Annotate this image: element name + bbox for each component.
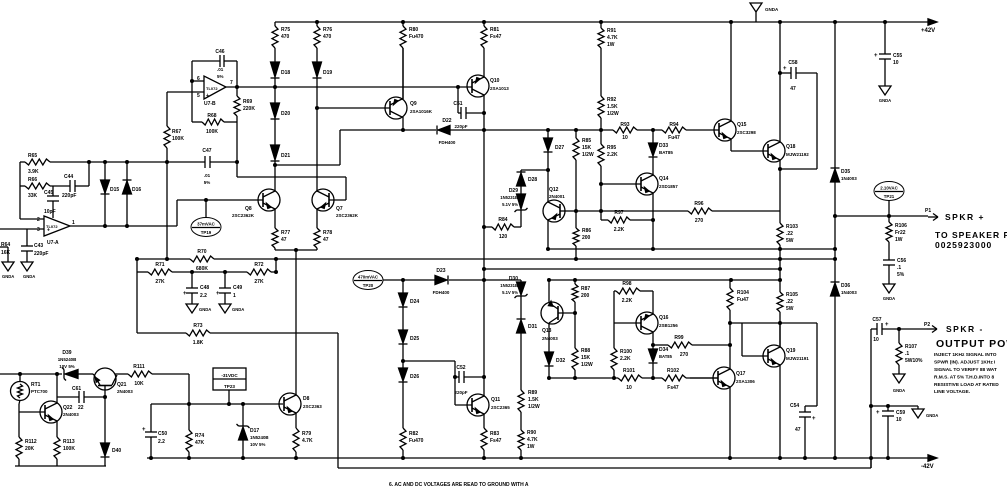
svg-text:5%: 5% — [204, 180, 211, 185]
svg-text:3.9K: 3.9K — [28, 169, 39, 175]
diode D31 — [517, 320, 526, 333]
svg-text:220pF: 220pF — [454, 124, 467, 129]
svg-text:TP20: TP20 — [363, 283, 374, 288]
svg-text:Q13: Q13 — [542, 328, 552, 334]
capacitor C47 — [204, 156, 206, 168]
svg-text:SPKR -: SPKR - — [946, 324, 984, 334]
svg-text:C46: C46 — [215, 49, 224, 55]
svg-text:R102: R102 — [667, 368, 679, 374]
svg-text:Q7: Q7 — [336, 206, 343, 212]
capacitor C46 — [219, 55, 221, 67]
svg-text:470: 470 — [323, 34, 332, 40]
svg-text:15K: 15K — [581, 355, 591, 361]
svg-text:INJECT 1KHz SIGNAL INTO: INJECT 1KHz SIGNAL INTO — [934, 352, 997, 358]
svg-text:5%: 5% — [897, 272, 905, 278]
svg-text:+: + — [206, 93, 209, 99]
resistor R88 — [574, 313, 576, 348]
svg-text:16K: 16K — [1, 250, 11, 256]
svg-text:TP19: TP19 — [201, 230, 212, 235]
wire emitters join — [275, 249, 317, 251]
svg-text:Fu470: Fu470 — [409, 438, 424, 444]
svg-text:R75: R75 — [281, 27, 290, 33]
capacitor C59 — [871, 405, 918, 407]
diode D20 — [271, 103, 280, 118]
svg-text:+: + — [885, 322, 889, 328]
resistor R80 — [402, 22, 404, 26]
svg-text:RESISTIVE LOAD AT RATED: RESISTIVE LOAD AT RATED — [934, 382, 999, 388]
transistor Q22 — [19, 411, 45, 413]
ground GNDA top — [750, 3, 762, 12]
svg-text:R87: R87 — [581, 286, 590, 292]
svg-text:D17: D17 — [250, 428, 259, 434]
svg-text:270: 270 — [680, 352, 689, 358]
svg-text:-42V: -42V — [921, 464, 934, 470]
transistor Q16 — [614, 322, 641, 324]
svg-text:R93: R93 — [620, 122, 629, 128]
svg-text:BAT85: BAT85 — [659, 150, 673, 155]
wire U7-A output — [70, 225, 177, 227]
svg-text:R106: R106 — [895, 223, 907, 229]
wire bus C — [484, 268, 780, 270]
svg-text:C49: C49 — [233, 285, 242, 291]
+42V arrow — [928, 19, 937, 25]
wire main bias line — [340, 129, 436, 131]
svg-text:GNDA: GNDA — [199, 307, 211, 312]
svg-text:Fr22: Fr22 — [895, 230, 906, 236]
svg-text:2N4003: 2N4003 — [63, 412, 79, 417]
svg-text:2.2K: 2.2K — [620, 356, 631, 362]
diode D26 — [399, 368, 408, 381]
capacitor C54 — [816, 323, 818, 406]
resistor R85 — [575, 130, 577, 138]
wire x484 driver rail — [483, 130, 485, 227]
svg-text:R82: R82 — [409, 431, 418, 437]
resistor R96 — [688, 208, 712, 214]
svg-text:Q15: Q15 — [737, 122, 747, 128]
svg-text:D26: D26 — [410, 374, 419, 380]
svg-text:2: 2 — [37, 217, 40, 223]
wire Q11 base net — [403, 360, 455, 362]
svg-text:D21: D21 — [281, 153, 290, 159]
svg-text:D15: D15 — [110, 187, 119, 193]
svg-text:6. AC AND DC VOLTAGES ARE READ: 6. AC AND DC VOLTAGES ARE READ TO GROUND… — [389, 482, 529, 488]
svg-text:PTC700: PTC700 — [31, 389, 48, 394]
svg-text:1N4003: 1N4003 — [841, 176, 857, 181]
svg-text:.01: .01 — [217, 67, 224, 72]
svg-text:2SD1857: 2SD1857 — [659, 184, 678, 189]
transistor Q12 — [543, 200, 565, 222]
diode D33 — [652, 130, 654, 143]
svg-text:C57: C57 — [872, 317, 881, 323]
svg-text:R64: R64 — [1, 242, 10, 248]
svg-text:R100: R100 — [620, 349, 632, 355]
diode D39 zener — [65, 370, 78, 379]
wire Q7 base path — [236, 122, 238, 177]
svg-text:D16: D16 — [132, 187, 141, 193]
svg-text:D24: D24 — [410, 299, 419, 305]
diode D15 — [104, 162, 106, 226]
svg-text:.1: .1 — [897, 265, 901, 271]
wire x871 riser — [870, 329, 872, 468]
svg-text:4.7K: 4.7K — [302, 438, 313, 444]
wire SPKR+ line — [835, 215, 928, 217]
svg-text:D36: D36 — [841, 283, 850, 289]
svg-text:200: 200 — [582, 235, 591, 241]
svg-text:2N4003: 2N4003 — [117, 389, 133, 394]
svg-text:-31VDC: -31VDC — [221, 373, 238, 378]
svg-text:R99: R99 — [674, 335, 683, 341]
svg-text:R85: R85 — [582, 138, 591, 144]
resistor R102 — [662, 375, 686, 381]
svg-text:+: + — [47, 228, 50, 234]
resistor R78 — [314, 228, 320, 248]
svg-text:10pF: 10pF — [44, 209, 56, 215]
svg-text:R72: R72 — [254, 262, 263, 268]
resistor R72 — [247, 269, 271, 275]
capacitor C45 — [52, 186, 54, 196]
svg-text:4.7K: 4.7K — [607, 35, 618, 41]
transistor Q14 — [601, 183, 641, 185]
ground GNDA C49 — [219, 304, 231, 313]
svg-text:+: + — [183, 291, 187, 297]
wire -42V bottom rail — [147, 457, 928, 459]
svg-text:R111: R111 — [133, 364, 145, 370]
wire node R65/C47 line — [20, 161, 25, 163]
svg-text:D28: D28 — [528, 177, 537, 183]
svg-text:Q17: Q17 — [736, 371, 746, 377]
svg-text:P1: P1 — [925, 208, 931, 214]
svg-text:C61: C61 — [72, 386, 81, 392]
svg-text:R80: R80 — [409, 27, 418, 33]
resistor R107 — [898, 329, 900, 343]
svg-text:1.5K: 1.5K — [528, 397, 539, 403]
svg-text:C56: C56 — [897, 258, 906, 264]
svg-text:1: 1 — [72, 220, 75, 226]
resistor R73 — [137, 332, 186, 334]
svg-text:D33: D33 — [659, 143, 668, 149]
svg-text:+: + — [874, 53, 878, 59]
svg-text:Q22: Q22 — [63, 405, 73, 411]
svg-text:2N4001: 2N4001 — [549, 194, 565, 199]
diode D21 — [271, 145, 280, 160]
resistor R75 — [274, 22, 276, 26]
svg-text:1: 1 — [233, 293, 236, 299]
svg-text:SIGNAL TO VERIFY 88 WAT: SIGNAL TO VERIFY 88 WAT — [934, 367, 997, 373]
svg-text:270: 270 — [695, 218, 704, 224]
diode D16 — [126, 162, 128, 226]
resistor R86 — [573, 228, 579, 246]
svg-text:R70: R70 — [197, 249, 206, 255]
svg-text:R112: R112 — [25, 439, 37, 445]
svg-text:220pF: 220pF — [34, 251, 48, 257]
svg-text:2SC2365: 2SC2365 — [491, 405, 510, 410]
wire -31V line — [0, 373, 62, 375]
resistor R76 — [316, 22, 318, 26]
svg-text:RT1: RT1 — [31, 382, 41, 388]
svg-text:5: 5 — [197, 93, 200, 99]
svg-text:D25: D25 — [410, 336, 419, 342]
svg-text:27K: 27K — [155, 279, 165, 285]
svg-text:2N4003: 2N4003 — [542, 336, 558, 341]
diode D29 — [520, 186, 522, 194]
svg-text:4.7K: 4.7K — [527, 437, 538, 443]
svg-text:0025923000: 0025923000 — [935, 240, 992, 250]
ground GNDA C56 — [883, 284, 895, 293]
wire base bias line — [576, 210, 688, 212]
svg-text:R107: R107 — [905, 344, 917, 350]
op-amp U7-B — [204, 76, 226, 99]
svg-text:C52: C52 — [456, 365, 465, 371]
capacitor C51 — [457, 87, 459, 113]
diode D24 — [402, 280, 404, 293]
svg-text:+: + — [812, 416, 816, 422]
svg-text:Q8: Q8 — [245, 206, 252, 212]
svg-text:MJW21191: MJW21191 — [786, 356, 809, 361]
ground GNDA C55 — [879, 86, 891, 95]
resistor R99 — [653, 344, 668, 346]
svg-text:47: 47 — [323, 237, 329, 243]
svg-text:R79: R79 — [302, 431, 311, 437]
svg-text:1W: 1W — [527, 444, 535, 450]
svg-text:U7-B: U7-B — [204, 101, 216, 107]
svg-text:.1: .1 — [905, 351, 909, 357]
svg-text:R104: R104 — [737, 290, 749, 296]
svg-text:TP21: TP21 — [884, 194, 895, 199]
resistor R83 — [481, 428, 487, 450]
svg-text:R68: R68 — [207, 113, 216, 119]
resistor R74 — [188, 404, 190, 430]
svg-text:R71: R71 — [155, 262, 164, 268]
svg-text:2.10VAC: 2.10VAC — [880, 186, 898, 191]
svg-text:C50: C50 — [158, 431, 167, 437]
-42V arrow — [928, 455, 937, 461]
resistor R66 — [25, 183, 50, 189]
svg-text:Fs47: Fs47 — [490, 438, 502, 444]
resistor R65 — [25, 159, 50, 165]
svg-text:SPWR (IN). ADJUST 1KHz I: SPWR (IN). ADJUST 1KHz I — [934, 360, 996, 366]
svg-text:GNDA: GNDA — [765, 7, 779, 12]
svg-text:C47: C47 — [202, 148, 211, 154]
svg-text:D39: D39 — [62, 350, 71, 356]
svg-text:10: 10 — [626, 385, 632, 391]
diode D30 — [520, 280, 522, 282]
thermistor RT1 — [11, 382, 30, 401]
transistor Q13 — [541, 302, 563, 324]
resistor R103 — [777, 223, 783, 245]
resistor R84 — [484, 226, 492, 228]
capacitor C61 — [57, 396, 79, 398]
diode D25 — [399, 330, 408, 343]
resistor R104 — [729, 280, 731, 288]
wire D21 to D22 node — [275, 164, 340, 166]
svg-text:R89: R89 — [528, 390, 537, 396]
wire lower return rail — [338, 467, 871, 469]
diode D18 — [271, 62, 280, 77]
transistor Q19 — [742, 355, 768, 357]
svg-text:10K: 10K — [134, 381, 144, 387]
transistor Q21 — [94, 368, 116, 390]
svg-text:R101: R101 — [623, 368, 635, 374]
resistor R90 — [518, 430, 524, 450]
wire bias box top — [151, 403, 283, 405]
svg-text:5W: 5W — [786, 306, 794, 312]
svg-text:2SC2362K: 2SC2362K — [232, 213, 255, 218]
svg-text:1/2W: 1/2W — [607, 111, 619, 117]
svg-text:+: + — [142, 427, 146, 433]
svg-text:GNDA: GNDA — [926, 413, 938, 418]
capacitor C49 — [224, 272, 226, 288]
svg-text:FDH400: FDH400 — [433, 290, 450, 295]
svg-text:C59: C59 — [896, 410, 905, 416]
svg-text:5.1V 5%: 5.1V 5% — [502, 290, 518, 295]
svg-text:R83: R83 — [490, 431, 499, 437]
svg-text:Q10: Q10 — [490, 78, 500, 84]
svg-text:R92: R92 — [607, 97, 616, 103]
svg-text:5W: 5W — [786, 238, 794, 244]
op-amp U7-A — [44, 216, 70, 236]
resistor R95 — [598, 144, 604, 166]
svg-text:D18: D18 — [281, 70, 290, 76]
diode D40 — [101, 443, 110, 456]
svg-text:+42V: +42V — [921, 28, 935, 34]
svg-text:2.2K: 2.2K — [622, 298, 633, 304]
svg-text:15K: 15K — [582, 145, 592, 151]
wire Q19 base loop — [730, 322, 817, 324]
svg-text:10V 5%: 10V 5% — [59, 364, 74, 369]
resistor R87 — [574, 280, 576, 284]
wire bus bias D — [383, 279, 403, 281]
svg-text:D30: D30 — [509, 276, 518, 282]
transistor Q15 — [714, 119, 736, 141]
test point TP20 — [353, 271, 383, 290]
svg-text:R.M.S. AT 5% T.H.D.INTO 8: R.M.S. AT 5% T.H.D.INTO 8 — [934, 375, 994, 381]
resistor R97 — [601, 219, 608, 221]
ground GNDA C48 — [186, 304, 198, 313]
svg-text:C55: C55 — [893, 53, 902, 59]
resistor R68 — [192, 121, 202, 123]
connector P2 — [927, 328, 937, 330]
svg-text:6: 6 — [197, 76, 200, 82]
svg-text:2.2K: 2.2K — [614, 227, 625, 233]
svg-text:R96: R96 — [694, 201, 703, 207]
wire bias line y378 — [549, 377, 618, 379]
svg-text:Fu470: Fu470 — [409, 34, 424, 40]
svg-text:FDH400: FDH400 — [439, 140, 456, 145]
wire U7-B output — [226, 86, 472, 88]
svg-text:D22: D22 — [442, 118, 451, 124]
resistor R111 — [115, 373, 128, 375]
diode D36 — [831, 283, 840, 296]
svg-text:R113: R113 — [63, 439, 75, 445]
capacitor C56 — [888, 242, 890, 260]
svg-text:R81: R81 — [490, 27, 499, 33]
wire Q10 base — [471, 86, 473, 88]
svg-text:680K: 680K — [196, 266, 208, 272]
svg-text:Fs47: Fs47 — [667, 385, 679, 391]
svg-text:R67: R67 — [172, 129, 181, 135]
svg-text:R66: R66 — [28, 177, 37, 183]
svg-text:D29: D29 — [509, 188, 518, 194]
svg-text:C51: C51 — [453, 101, 462, 107]
svg-text:TL072: TL072 — [206, 86, 218, 91]
svg-text:Q14: Q14 — [659, 176, 669, 182]
svg-text:33K: 33K — [28, 193, 38, 199]
junction dots — [315, 20, 319, 24]
svg-text:1N5231B: 1N5231B — [500, 195, 518, 200]
svg-text:Q18: Q18 — [786, 144, 796, 150]
transistor Q10 — [467, 75, 489, 97]
resistor R69 — [236, 87, 238, 96]
transistor Q18 — [763, 140, 785, 162]
wire U7-A pin3 — [0, 228, 44, 230]
svg-text:D23: D23 — [436, 268, 445, 274]
capacitor C52 — [455, 376, 459, 378]
ground GNDA C59 — [917, 406, 919, 409]
svg-text:D34: D34 — [659, 347, 668, 353]
svg-text:R65: R65 — [28, 153, 37, 159]
diode D23 — [435, 276, 447, 285]
svg-text:+: + — [216, 291, 220, 297]
svg-text:100K: 100K — [206, 129, 218, 135]
resistor R91 — [600, 22, 602, 28]
svg-text:R78: R78 — [323, 230, 332, 236]
svg-text:.01: .01 — [204, 173, 211, 178]
svg-text:220pF: 220pF — [62, 193, 76, 199]
svg-text:10V 5%: 10V 5% — [250, 442, 265, 447]
svg-text:2SB1256: 2SB1256 — [659, 323, 678, 328]
resistor R105 — [777, 292, 783, 312]
svg-text:Q16: Q16 — [659, 315, 669, 321]
wire R66 line — [20, 185, 25, 187]
svg-text:20K: 20K — [25, 446, 35, 452]
diode D34 — [649, 349, 658, 362]
svg-text:5.1V 5%: 5.1V 5% — [502, 202, 518, 207]
svg-text:C54: C54 — [790, 403, 799, 409]
diode D19 — [313, 62, 322, 77]
connector P1 — [928, 216, 938, 218]
svg-text:47: 47 — [281, 237, 287, 243]
ground GNDA R107 — [893, 374, 905, 383]
svg-text:C44: C44 — [64, 174, 73, 180]
svg-text:100K: 100K — [172, 136, 184, 142]
resistor R106 — [888, 216, 890, 222]
wire D27 to Q12 node — [521, 169, 548, 171]
svg-text:BAT85: BAT85 — [659, 354, 673, 359]
svg-text:Q19: Q19 — [786, 348, 796, 354]
svg-text:22: 22 — [78, 405, 84, 411]
svg-text:.22: .22 — [786, 231, 793, 237]
svg-text:1N5240B: 1N5240B — [58, 357, 77, 362]
resistor R94 — [662, 127, 686, 133]
svg-text:R84: R84 — [498, 217, 507, 223]
wire bottom left return — [15, 465, 106, 467]
svg-text:TO SPEAKER P/N: TO SPEAKER P/N — [935, 230, 1007, 240]
svg-text:SPKR +: SPKR + — [945, 212, 985, 222]
svg-text:C45: C45 — [44, 190, 53, 196]
svg-text:100K: 100K — [63, 446, 75, 452]
svg-text:3: 3 — [37, 227, 40, 233]
svg-text:GNDA: GNDA — [2, 274, 14, 279]
svg-text:Fu47: Fu47 — [668, 135, 680, 141]
svg-text:470mVAC: 470mVAC — [358, 275, 379, 280]
svg-text:D19: D19 — [323, 70, 332, 76]
diode D22 — [438, 126, 450, 135]
svg-text:R74: R74 — [195, 433, 204, 439]
svg-text:1/2W: 1/2W — [528, 404, 540, 410]
svg-text:R69: R69 — [243, 99, 252, 105]
resistor R82 — [400, 428, 406, 450]
svg-text:GNDA: GNDA — [883, 296, 895, 301]
